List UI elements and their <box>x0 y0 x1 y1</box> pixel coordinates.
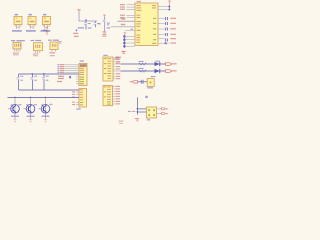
junction crystal rail n1 <box>32 73 33 74</box>
U1 right pin names <box>152 5 156 44</box>
U1 left pin names <box>136 5 141 43</box>
power node label <box>43 27 49 35</box>
wire BR to Y2 pin1 <box>138 108 147 110</box>
resistor pack RP2 <box>103 85 113 105</box>
relay K1 pin numbers <box>15 25 22 27</box>
blue label rail b <box>34 104 37 105</box>
U1 right pin row net r5 <box>158 38 176 42</box>
net labels group2 <box>120 15 125 19</box>
junction blob OSC <box>69 76 71 78</box>
power VCC P3 <box>103 15 106 17</box>
oscillator Y2 <box>147 107 157 118</box>
junction BR n1 <box>137 108 139 109</box>
relay K1 pin 2 <box>18 25 20 29</box>
U3 pin names <box>80 89 83 105</box>
ground GND3 <box>135 118 139 121</box>
bus vertical wire <box>123 34 125 48</box>
op IC U1 <box>135 3 158 46</box>
transistor Q3 <box>39 97 50 120</box>
connector J3 side note <box>59 41 62 44</box>
bus entry b2 <box>123 39 126 41</box>
wire VCC down <box>78 12 80 21</box>
buzzer LS1 <box>147 79 154 87</box>
U3 left pin stubs and labels <box>72 91 79 105</box>
relay K2 pin 1 <box>29 25 31 29</box>
net labels below rail <box>57 76 64 82</box>
wire bus to U1 pin <box>126 39 135 41</box>
ground GND Q1 <box>13 120 16 123</box>
resistor R2 <box>139 68 147 72</box>
wire LED row2 <box>121 70 166 72</box>
connector J1 <box>13 42 21 49</box>
port SPK arrow <box>130 81 138 84</box>
net labels group1 <box>120 4 125 10</box>
buzzer LS1 label <box>147 87 153 88</box>
capacitor C5 value label <box>97 23 100 24</box>
LED D2 <box>147 69 160 80</box>
U2 designator <box>80 60 84 61</box>
ground GND1 <box>103 31 107 33</box>
relay K3 pin 1 <box>44 25 46 29</box>
U1 left pin wires group2 <box>127 15 136 17</box>
relay K2 <box>28 14 36 25</box>
relay K3 pin 2 <box>47 25 49 29</box>
resistor pack RP1 <box>103 57 113 81</box>
wire bus to U1 pin <box>126 45 135 47</box>
junction crystal rail n2 <box>43 73 45 74</box>
power VCC P4 <box>168 1 171 5</box>
connector J3 title <box>48 40 59 41</box>
RP1 pin names <box>104 58 111 79</box>
U1 right pin row net r3 <box>158 28 176 31</box>
resistor R1 <box>139 61 147 65</box>
relay K2 pin 2 <box>32 25 34 29</box>
wire U1 VCC pins <box>158 5 170 11</box>
power VCC P2 <box>77 9 80 12</box>
U2 left pin stubs <box>76 77 79 84</box>
RP2 pin names <box>104 86 111 104</box>
Y2 designator <box>147 119 150 120</box>
capacitor C5 <box>94 21 97 27</box>
blue label rail a <box>18 104 21 105</box>
IC U3 <box>79 89 87 108</box>
capacitor C1 <box>17 74 24 90</box>
relay K3 pin numbers <box>43 25 50 27</box>
note text block <box>73 27 84 37</box>
connector J1 title <box>11 40 25 41</box>
relay K1 net label <box>12 30 22 32</box>
U1 right pin row net r1 <box>158 17 176 20</box>
wire transistor rail <box>8 96 80 98</box>
connector J3 pins <box>52 50 56 52</box>
connector J1 pins <box>14 49 20 52</box>
wire BR vertical <box>137 97 139 115</box>
bus entry b3 <box>123 42 126 44</box>
junction C4 top <box>85 20 87 21</box>
relay K2 pin numbers <box>29 25 36 27</box>
connector J2 net labels <box>33 53 39 56</box>
junction BR n2 <box>137 111 139 112</box>
connector J2 title <box>31 40 42 41</box>
capacitor C3 <box>42 74 49 90</box>
port P_LED2 <box>166 70 177 73</box>
U1 right pin row net r4 <box>158 33 176 36</box>
connector J3 <box>50 42 58 50</box>
U1 right pin row net r6 <box>158 42 176 44</box>
capacitor C4 value label <box>88 23 92 29</box>
capacitor C4 <box>84 21 87 29</box>
connector J2 pins <box>35 51 39 53</box>
wire bus to U1 pin <box>126 35 135 37</box>
blue label rail c <box>49 104 52 105</box>
connector J2 <box>34 43 43 51</box>
branch B left tick <box>98 23 100 24</box>
capacitor C2 <box>31 74 38 90</box>
RP1 right pins and net labels <box>113 57 121 80</box>
relay K3 net label <box>41 30 51 32</box>
transistor Q1 <box>8 97 19 120</box>
Y2 right pin 4 <box>157 113 168 115</box>
wire P3 down <box>104 17 106 20</box>
U1 right pin row net r2 <box>158 22 176 25</box>
ground GND2 label <box>122 51 126 54</box>
net note <box>115 57 119 60</box>
wire SPK <box>138 81 147 83</box>
wire LED row1 <box>121 63 166 65</box>
U1 designator <box>137 1 141 2</box>
port P_LED1 <box>166 63 177 66</box>
wire BR to Y2 pin2 <box>138 111 147 113</box>
Y2 right pin 3 <box>157 108 168 110</box>
sheet background <box>0 0 180 128</box>
RP1 designator <box>103 55 107 56</box>
U1 left pin wires group3 <box>107 18 136 28</box>
wire bus to U1 pin <box>126 42 135 44</box>
bus top label <box>124 32 127 33</box>
ground GND Q3 <box>44 120 47 123</box>
relay K1 pin 1 <box>15 25 17 29</box>
transistor Q2 <box>24 97 35 120</box>
LED D1 <box>155 61 160 67</box>
bus entry b1 <box>123 36 126 38</box>
U1 left pin wire row30 <box>125 29 135 31</box>
ground GND1 label <box>102 34 107 37</box>
U2 pin wires with net labels <box>58 64 80 73</box>
relay K3 <box>43 14 51 25</box>
ground GND Q2 <box>29 120 32 123</box>
capacitor C7 <box>141 80 144 84</box>
relay K2 net label <box>26 30 36 32</box>
BR top label <box>145 96 148 98</box>
relay K1 <box>14 14 22 25</box>
wire crystal top rail <box>19 73 79 75</box>
wire crystal bottom rail <box>19 89 79 91</box>
capacitor C6 value label <box>107 23 110 24</box>
connector J1 net labels <box>13 52 19 55</box>
U1 left pin wires group1 <box>127 5 136 10</box>
BR value label <box>128 111 135 112</box>
bus entry b4 <box>123 45 126 47</box>
U2 header block <box>80 64 87 67</box>
U3 designator <box>76 108 80 109</box>
RP2 right pins and net labels <box>113 86 120 105</box>
IC U2 <box>79 63 87 85</box>
capacitor C6 <box>103 20 106 32</box>
U2 pin names <box>80 68 84 84</box>
wire VCC rail <box>79 20 97 22</box>
bottom note text <box>119 121 124 125</box>
connector J3 net labels <box>49 52 55 56</box>
